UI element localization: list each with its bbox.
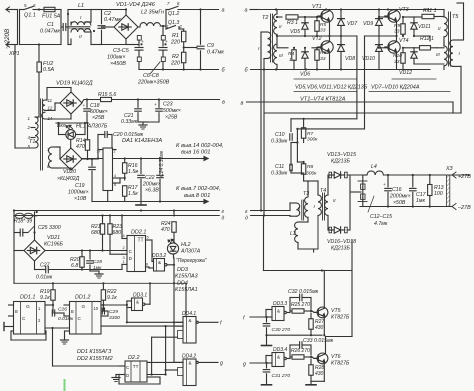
resistor R24 bbox=[173, 211, 175, 217]
resistor R7 bbox=[303, 119, 305, 128]
svg-text:С26: С26 bbox=[58, 307, 67, 313]
svg-text:430: 430 bbox=[315, 371, 324, 377]
diode VD12 bbox=[403, 47, 414, 49]
node d wire bbox=[251, 210, 290, 212]
svg-text:выв 16 001: выв 16 001 bbox=[181, 150, 211, 156]
svg-text:С25 3300: С25 3300 bbox=[38, 225, 61, 231]
wire input from VD20 bbox=[82, 158, 103, 160]
svg-text:ХЗ: ХЗ bbox=[445, 166, 453, 172]
svg-text:500мк×: 500мк× bbox=[163, 108, 181, 114]
svg-text:DA1 К142ЕН3А: DA1 К142ЕН3А bbox=[122, 138, 162, 144]
svg-text:0.047мк: 0.047мк bbox=[40, 29, 60, 35]
svg-text:0.33мк: 0.33мк bbox=[271, 171, 288, 177]
svg-text:220мк×350В: 220мк×350В bbox=[137, 80, 170, 86]
svg-text:+: + bbox=[141, 40, 144, 45]
svg-text:R11 1: R11 1 bbox=[423, 8, 437, 14]
resistor R21 bbox=[100, 224, 104, 235]
svg-text:220: 220 bbox=[170, 61, 180, 67]
svg-text:17: 17 bbox=[97, 150, 101, 154]
bridge rectifier VD20 bbox=[60, 148, 82, 170]
capacitor C21 bbox=[137, 100, 139, 108]
wires dd2.1 bbox=[102, 241, 104, 251]
svg-text:С28: С28 bbox=[93, 259, 102, 265]
svg-text:VD9: VD9 bbox=[363, 21, 373, 27]
svg-text:10: 10 bbox=[94, 306, 99, 311]
svg-text:R5: R5 bbox=[320, 22, 327, 28]
wire snubber right bbox=[297, 128, 364, 130]
svg-text:С32 0.015мк: С32 0.015мк bbox=[288, 289, 319, 295]
wire to T3 bbox=[291, 172, 304, 174]
ground bbox=[92, 201, 160, 203]
ground DD1.2 bbox=[65, 330, 70, 332]
svg-text:L2 35мГн: L2 35мГн bbox=[141, 10, 164, 16]
svg-text:&: & bbox=[189, 361, 192, 366]
svg-text:1: 1 bbox=[289, 57, 292, 63]
svg-text:0.33мк: 0.33мк bbox=[271, 139, 288, 145]
svg-text:АЛ307А: АЛ307А bbox=[180, 249, 201, 255]
svg-text:С3-С5: С3-С5 bbox=[113, 48, 130, 54]
svg-text:В: В bbox=[15, 309, 18, 314]
capacitor C16 bbox=[387, 175, 389, 187]
resistor R20 bbox=[80, 257, 84, 268]
svg-text:×25В: ×25В bbox=[165, 115, 178, 121]
wire dd4 cross links bbox=[165, 326, 167, 374]
capacitor C17 bbox=[412, 175, 414, 187]
switch Q1.1 bbox=[20, 9, 25, 11]
diode VD5 bbox=[304, 17, 306, 22]
capacitor C25 bbox=[19, 229, 21, 236]
svg-text:С27: С27 bbox=[40, 263, 51, 269]
svg-text:С12–С15: С12–С15 bbox=[370, 214, 392, 220]
svg-text:КД213Б: КД213Б bbox=[331, 159, 350, 165]
svg-text:470: 470 bbox=[161, 227, 170, 233]
svg-text:R26 270: R26 270 bbox=[291, 348, 310, 354]
svg-text:VT1: VT1 bbox=[312, 4, 322, 10]
svg-text:С22: С22 bbox=[145, 175, 155, 181]
node a rail bbox=[250, 9, 258, 11]
svg-text:L1: L1 bbox=[78, 3, 84, 9]
svg-text:Т3: Т3 bbox=[303, 191, 309, 197]
wire vt6 emitter gnd bbox=[311, 380, 324, 382]
svg-text:DD2 К155ТМ2: DD2 К155ТМ2 bbox=[77, 356, 113, 362]
svg-text:2: 2 bbox=[123, 245, 125, 250]
resistor R23 bbox=[108, 224, 112, 235]
wire snubber left bbox=[291, 118, 357, 120]
svg-text:R12 1: R12 1 bbox=[420, 36, 434, 42]
svg-text:2000мк×: 2000мк× bbox=[389, 194, 411, 200]
svg-text:DD1.2: DD1.2 bbox=[75, 295, 90, 301]
svg-text:VD6: VD6 bbox=[300, 72, 310, 78]
svg-text:VD19 КЦ402Д: VD19 КЦ402Д bbox=[56, 81, 93, 87]
svg-text:R6: R6 bbox=[320, 50, 327, 56]
capacitor C22 bbox=[140, 159, 142, 174]
capacitor C18 bbox=[86, 100, 88, 108]
resistor R4 bbox=[277, 47, 288, 49]
wire e vertical bbox=[263, 216, 265, 271]
svg-text:×КЦ402Д: ×КЦ402Д bbox=[57, 176, 80, 182]
fuse FU1 bbox=[39, 9, 44, 11]
svg-text:33: 33 bbox=[320, 56, 326, 62]
svg-text:VT6: VT6 bbox=[331, 354, 341, 360]
wire control node bbox=[48, 269, 122, 271]
coupling wires bbox=[45, 304, 53, 306]
svg-text:КТ827Б: КТ827Б bbox=[331, 361, 350, 367]
svg-text:×25В: ×25В bbox=[92, 115, 105, 121]
capacitor C31 bbox=[266, 363, 268, 368]
capacitor C9 bbox=[200, 10, 202, 45]
svg-text:100мк×: 100мк× bbox=[107, 55, 126, 61]
diode VD6 bbox=[304, 48, 306, 51]
svg-text:"Перегрузка": "Перегрузка" bbox=[176, 258, 207, 264]
wire bbox=[14, 215, 15, 217]
resistor R17 bbox=[124, 174, 126, 181]
svg-text:С29: С29 bbox=[109, 309, 118, 315]
capacitor C27 bbox=[34, 261, 36, 270]
svg-text:8: 8 bbox=[114, 183, 116, 187]
resistor R2 bbox=[183, 42, 185, 52]
svg-text:&: & bbox=[277, 309, 280, 314]
svg-text:R8: R8 bbox=[307, 164, 314, 170]
transformer T1 winding 11-14 bbox=[42, 100, 45, 110]
wire vt3-vt4 mid bbox=[365, 35, 397, 37]
svg-text:R4: R4 bbox=[288, 51, 295, 57]
svg-text:+: + bbox=[383, 182, 386, 187]
resistor R6 bbox=[315, 50, 319, 61]
switch Q1.3 bbox=[165, 26, 167, 29]
svg-text:+27В: +27В bbox=[458, 174, 471, 180]
wire mid node vt1-vt2 bbox=[277, 35, 330, 37]
resistor R8 bbox=[301, 164, 305, 175]
svg-text:Т4: Т4 bbox=[320, 188, 326, 194]
svg-text:VD12: VD12 bbox=[399, 70, 412, 76]
svg-text:VT5: VT5 bbox=[331, 308, 341, 314]
svg-text:680: 680 bbox=[113, 230, 122, 236]
svg-text:VD13–VD15: VD13–VD15 bbox=[327, 152, 356, 158]
svg-text:С33 0.015мк: С33 0.015мк bbox=[303, 338, 334, 344]
wire dd2.2 feedback bbox=[147, 376, 160, 378]
wire lower dc rail bbox=[139, 69, 219, 71]
output wires DD1.2 bbox=[101, 304, 127, 306]
switch Q1.2 bbox=[165, 10, 167, 27]
svg-text:HL1 АЛ307Б: HL1 АЛ307Б bbox=[76, 124, 108, 130]
svg-text:DD1.1: DD1.1 bbox=[20, 295, 35, 301]
svg-text:С30 270: С30 270 bbox=[272, 327, 291, 333]
capacitor C19 bbox=[91, 159, 93, 166]
capacitor C20 bbox=[104, 132, 106, 138]
capacitor C24 bbox=[159, 159, 161, 174]
svg-text:К выв.7 002-004,: К выв.7 002-004, bbox=[176, 186, 220, 192]
wire bbox=[20, 44, 62, 46]
capacitor C30 bbox=[266, 317, 268, 322]
svg-text:R1: R1 bbox=[172, 33, 179, 39]
svg-text:VD5: VD5 bbox=[290, 29, 300, 35]
pin ground DA1 bbox=[107, 191, 109, 202]
capacitor C26 bbox=[52, 305, 54, 313]
svg-text:R10: R10 bbox=[393, 53, 402, 59]
svg-text:33: 33 bbox=[394, 59, 400, 65]
svg-text:+: + bbox=[165, 40, 168, 45]
svg-text:Т2: Т2 bbox=[262, 15, 268, 21]
svg-text:0.5А: 0.5А bbox=[43, 67, 55, 73]
rail +27V bbox=[387, 174, 389, 176]
svg-text:1000мк×: 1000мк× bbox=[68, 190, 89, 196]
wire bbox=[91, 9, 102, 11]
svg-text:1: 1 bbox=[123, 259, 125, 264]
svg-text:а: а bbox=[245, 8, 248, 14]
svg-text:470: 470 bbox=[76, 144, 85, 150]
svg-text:R2: R2 bbox=[172, 54, 179, 60]
ground bbox=[142, 122, 144, 125]
wires bottom logic bbox=[53, 365, 120, 367]
svg-text:+: + bbox=[154, 103, 157, 108]
svg-text:Т5: Т5 bbox=[452, 14, 459, 20]
loop DD1.1 bbox=[11, 330, 14, 332]
svg-text:С: С bbox=[126, 365, 129, 370]
diode VD16 top branch bbox=[327, 175, 329, 195]
wire bbox=[430, 174, 447, 176]
svg-text:0.33мк: 0.33мк bbox=[121, 119, 138, 125]
wires logic bbox=[126, 301, 128, 322]
svg-text:9.1к: 9.1к bbox=[107, 295, 117, 301]
svg-text:КС196Б: КС196Б bbox=[44, 242, 63, 248]
resistor R28 bbox=[309, 365, 313, 376]
svg-text:а: а bbox=[222, 8, 225, 14]
svg-text:+: + bbox=[136, 170, 139, 175]
wire output gnd bbox=[160, 201, 205, 203]
wire output +5V bbox=[113, 158, 206, 160]
wire T3 T4 primary feed bbox=[304, 180, 318, 182]
svg-text:DD3: DD3 bbox=[177, 267, 188, 273]
diode VD17 bottom branch bbox=[327, 220, 329, 230]
connector XP1 bbox=[6, 9, 18, 11]
transformer T2 winding III wire bbox=[276, 40, 278, 47]
svg-text:R25 270: R25 270 bbox=[291, 302, 310, 308]
svg-text:6: 6 bbox=[146, 262, 148, 267]
svg-text:2: 2 bbox=[27, 125, 31, 130]
svg-text:9.1к: 9.1к bbox=[40, 295, 50, 301]
svg-text:С19: С19 bbox=[75, 183, 85, 189]
capacitors C12-C15 bbox=[362, 181, 364, 202]
svg-text:ХР1: ХР1 bbox=[8, 51, 20, 57]
resistor R5 bbox=[315, 21, 319, 32]
svg-text:33: 33 bbox=[320, 28, 326, 34]
svg-text:С9: С9 bbox=[207, 43, 214, 49]
svg-text:4: 4 bbox=[114, 174, 116, 178]
svg-text:×50В: ×50В bbox=[393, 200, 406, 206]
svg-text:в: в bbox=[222, 100, 225, 106]
capacitor bank C3-C5 bbox=[126, 44, 139, 46]
rails d e left bbox=[14, 210, 219, 212]
wire rectifier join bbox=[349, 175, 351, 230]
svg-text:д: д bbox=[245, 216, 248, 222]
svg-text:D2.2: D2.2 bbox=[128, 355, 140, 361]
svg-text:G: G bbox=[82, 304, 86, 310]
svg-text:300к: 300к bbox=[307, 137, 318, 143]
resistor R15 bbox=[101, 97, 112, 101]
svg-text:VD7: VD7 bbox=[347, 21, 358, 27]
wire feedback return bbox=[452, 102, 454, 113]
fuse FU2 bbox=[38, 45, 40, 63]
svg-text:д: д bbox=[222, 216, 225, 222]
svg-text:g: g bbox=[220, 360, 223, 366]
svg-text:VD1-VD4 Д246: VD1-VD4 Д246 bbox=[116, 2, 156, 8]
pin feedback bbox=[113, 177, 125, 179]
svg-text:HL2: HL2 bbox=[181, 242, 191, 248]
diode VD9 bbox=[378, 10, 380, 19]
wire bbox=[290, 143, 292, 166]
resistor R9 bbox=[401, 24, 405, 35]
svg-text:К155ЛА3: К155ЛА3 bbox=[175, 274, 198, 280]
resistor R19 bbox=[51, 290, 55, 301]
svg-text:g: g bbox=[243, 362, 246, 368]
svg-text:DD2.1: DD2.1 bbox=[131, 230, 146, 236]
label group VD7-VD10 bbox=[392, 78, 436, 80]
svg-text:33: 33 bbox=[394, 29, 400, 35]
svg-text:L4: L4 bbox=[371, 164, 377, 170]
svg-text:VD11: VD11 bbox=[418, 24, 431, 30]
svg-text:4.7мк: 4.7мк bbox=[374, 221, 388, 227]
svg-text:В: В bbox=[71, 309, 74, 314]
svg-text:С10: С10 bbox=[275, 132, 285, 138]
svg-text:К выв.14 002-004,: К выв.14 002-004, bbox=[176, 143, 224, 149]
svg-text:R15 5.6: R15 5.6 bbox=[98, 92, 116, 98]
svg-text:×6.3В: ×6.3В bbox=[145, 188, 159, 194]
svg-text:R18* 39: R18* 39 bbox=[14, 219, 32, 225]
svg-text:11: 11 bbox=[48, 98, 53, 103]
svg-text:430: 430 bbox=[315, 325, 324, 331]
svg-text:&: & bbox=[277, 355, 280, 360]
svg-text:FU1 5А: FU1 5А bbox=[42, 14, 61, 20]
capacitor C23 bbox=[158, 100, 160, 108]
svg-text:0.01мк: 0.01мк bbox=[58, 316, 74, 322]
winding T5 III connection bbox=[437, 47, 444, 49]
svg-text:~ 220В: ~ 220В bbox=[4, 29, 11, 49]
diode VD8 bbox=[340, 36, 342, 44]
capacitor C11 bbox=[289, 164, 291, 171]
input pin bbox=[3, 323, 5, 331]
svg-text:&: & bbox=[189, 318, 192, 323]
svg-text:D: D bbox=[126, 373, 129, 378]
svg-text:КД213Б: КД213Б bbox=[331, 246, 350, 252]
svg-text:1.5к: 1.5к bbox=[128, 191, 138, 197]
capacitor C28 bbox=[89, 251, 91, 260]
svg-text:выв.8 001: выв.8 001 bbox=[184, 193, 210, 199]
green mark bbox=[64, 380, 66, 391]
svg-text:1мк: 1мк bbox=[416, 198, 425, 204]
resistor R3 bbox=[277, 16, 282, 18]
svg-text:R7: R7 bbox=[307, 131, 314, 137]
node e wire bbox=[251, 215, 290, 217]
svg-text:Q1.3: Q1.3 bbox=[168, 20, 179, 26]
svg-text:VD8: VD8 bbox=[345, 56, 355, 62]
resistor R1 bbox=[179, 28, 184, 30]
svg-text:DD1 К155АГ3: DD1 К155АГ3 bbox=[77, 349, 111, 355]
svg-text:С1: С1 bbox=[47, 22, 54, 28]
svg-text:+: + bbox=[83, 103, 86, 108]
svg-text:0.47мк: 0.47мк bbox=[207, 50, 224, 56]
resistor R10 bbox=[401, 53, 405, 64]
svg-text:G: G bbox=[26, 304, 30, 310]
capacitor bank C6-C8 bbox=[161, 36, 165, 41]
rail -27V bbox=[360, 206, 452, 208]
svg-text:С23: С23 bbox=[163, 102, 173, 108]
svg-text:VD21: VD21 bbox=[47, 235, 60, 241]
svg-text:КТ827Б: КТ827Б bbox=[331, 315, 350, 321]
svg-text:6.8: 6.8 bbox=[71, 263, 78, 269]
svg-text:300к: 300к bbox=[306, 171, 317, 177]
resistor R16 bbox=[124, 159, 126, 163]
capacitor C10 bbox=[290, 119, 292, 132]
svg-text:ТТ: ТТ bbox=[138, 238, 144, 244]
svg-text:R3 1: R3 1 bbox=[287, 20, 298, 26]
diode VD7 bbox=[340, 10, 342, 19]
capacitor C2 bbox=[101, 10, 103, 24]
svg-text:Q1.2: Q1.2 bbox=[168, 11, 179, 17]
wire to VT6 collector bbox=[351, 240, 353, 337]
svg-text:×10В: ×10В bbox=[74, 196, 87, 202]
svg-text:С6-С8: С6-С8 bbox=[143, 73, 159, 79]
svg-text:VD7–VD10 КД204А: VD7–VD10 КД204А bbox=[371, 85, 420, 91]
svg-text:С31 270: С31 270 bbox=[272, 373, 291, 379]
svg-text:1мк: 1мк bbox=[93, 265, 102, 271]
svg-text:в: в bbox=[241, 101, 244, 107]
svg-text:220: 220 bbox=[170, 40, 180, 46]
capacitor C1 bbox=[60, 10, 62, 45]
label group VD5-VD12 bbox=[294, 78, 356, 80]
resistor R27 bbox=[309, 319, 313, 330]
svg-text:С16: С16 bbox=[392, 187, 402, 193]
svg-text:–27В: –27В bbox=[457, 205, 471, 211]
svg-text:VD20: VD20 bbox=[63, 169, 76, 175]
svg-text:&: & bbox=[136, 300, 139, 305]
svg-text:VT2: VT2 bbox=[312, 36, 322, 42]
svg-text:0.01мк: 0.01мк bbox=[36, 275, 53, 281]
svg-text:С24 0.33мк: С24 0.33мк bbox=[159, 150, 165, 177]
svg-text:С11: С11 bbox=[275, 164, 284, 170]
svg-text:×450В: ×450В bbox=[110, 61, 126, 67]
resistor R14 bbox=[87, 123, 89, 140]
svg-text:2: 2 bbox=[114, 150, 116, 154]
svg-text:ТТ: ТТ bbox=[133, 364, 139, 369]
svg-text:3300: 3300 bbox=[109, 315, 120, 321]
svg-text:R9: R9 bbox=[394, 23, 401, 29]
svg-text:100: 100 bbox=[434, 191, 443, 197]
transformer T1 winding 7-8 bbox=[49, 147, 53, 168]
led HL2 bbox=[167, 243, 178, 254]
svg-text:&: & bbox=[158, 260, 161, 265]
resistor R22 bbox=[101, 290, 105, 301]
svg-text:680: 680 bbox=[91, 230, 100, 236]
svg-text:VT3: VT3 bbox=[399, 7, 409, 13]
node b rail bbox=[251, 69, 430, 71]
resistor R13 bbox=[429, 175, 431, 184]
svg-text:Т1: Т1 bbox=[29, 139, 35, 145]
diode VD11 bbox=[403, 16, 414, 18]
svg-text:12: 12 bbox=[48, 106, 53, 111]
wire vt5 emitter rail bbox=[267, 334, 323, 336]
wire dd4.1 input bbox=[127, 321, 183, 323]
wire logic rail bbox=[14, 282, 186, 284]
capacitor C29 bbox=[101, 304, 103, 306]
diode VD10 bbox=[378, 36, 380, 44]
svg-text:Q1.1: Q1.1 bbox=[24, 13, 36, 19]
svg-text:VT4: VT4 bbox=[399, 38, 409, 44]
resistors R18 bbox=[13, 209, 15, 211]
